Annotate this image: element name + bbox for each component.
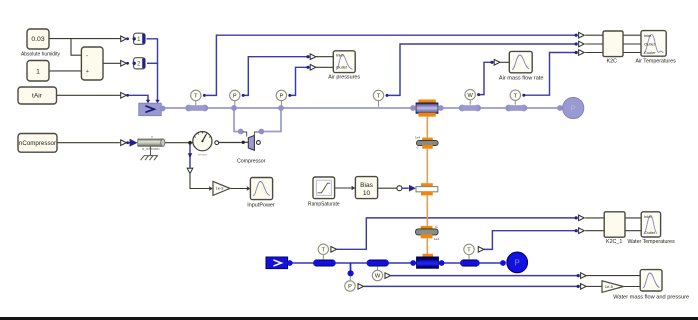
gain 1e-5 water <box>602 281 624 293</box>
mass flow sensor water <box>377 266 379 270</box>
svg-text:-: - <box>86 53 88 59</box>
constant 1 <box>27 61 49 82</box>
compressor inlet dot <box>238 129 244 135</box>
svg-text:T: T <box>514 93 518 99</box>
speed source input arrow <box>130 139 138 147</box>
water pump circle <box>507 252 528 273</box>
svg-text:Inlet: Inlet <box>336 53 344 58</box>
air cooler port dots <box>410 105 416 111</box>
wire constant 1 to sum plus input <box>49 70 81 72</box>
connector into K2C_1 input1 <box>575 216 578 219</box>
svg-text:RampSaturate: RampSaturate <box>308 201 340 207</box>
wire connector to water scope in1 <box>587 275 641 277</box>
wire constant 0.03 output <box>49 38 121 40</box>
connector into Air pressures in1 <box>306 55 309 58</box>
temperature sensor T1 (air inlet) <box>195 101 197 106</box>
air source boundary block <box>139 103 161 115</box>
thermal conductor G2 body <box>416 229 438 235</box>
svg-text:Air mass flow rate: Air mass flow rate <box>499 76 544 82</box>
air pipe segment 2 <box>459 105 466 112</box>
connector into water scope <box>577 274 580 277</box>
wire gain to InputPower scope <box>230 188 247 190</box>
sum block (1 - x) <box>81 47 103 80</box>
water pipe segment 3 <box>460 260 467 267</box>
arrowhead into gain <box>209 186 213 190</box>
thermal conductor G1 orange tab bottom <box>422 145 433 149</box>
thermal conductor G2 orange tab bottom <box>421 235 433 239</box>
water heater orange cap <box>423 254 434 257</box>
Bias 10 block <box>355 177 377 199</box>
gauge output ring connector <box>215 141 219 145</box>
water source boundary block <box>266 257 288 269</box>
wire gauge flange to compressor shaft <box>219 142 242 144</box>
wire block2 output joins <box>147 62 158 64</box>
wire T2 to K2C input2 <box>388 44 576 95</box>
air junction dot 1 <box>231 105 237 111</box>
svg-text:1e-5: 1e-5 <box>605 284 614 289</box>
compressor body <box>248 135 254 150</box>
water pressure branch dot <box>348 270 354 276</box>
arrowhead into air source port2 <box>155 100 159 104</box>
air junction dot 2 <box>278 105 284 111</box>
compressor outlet dot <box>259 129 265 135</box>
scope Water mass flow and pressure <box>640 270 662 291</box>
wire water P to gain <box>364 285 577 287</box>
svg-text:Water Temperatures: Water Temperatures <box>627 239 674 245</box>
air pipe segment 3 <box>505 105 512 112</box>
wire shaft connector into compressor <box>245 141 249 143</box>
svg-text:1e4: 1e4 <box>415 135 420 139</box>
routing block 1 <box>134 33 145 44</box>
air sink boundary circle <box>563 97 584 118</box>
wire K2C_1 to Water Temperatures <box>625 230 641 232</box>
wire P2 to Air pressures input2 <box>290 67 307 95</box>
air cooler heat exchanger orange cap top <box>418 100 435 104</box>
wire K2C to Air Temperatures <box>623 34 641 36</box>
wire P1 to Air pressures input1 <box>244 57 308 96</box>
wire tAir output <box>57 94 121 96</box>
wire connector to K2C_1 <box>585 217 604 219</box>
air pipe wire junction1 down to compressor inlet <box>234 108 238 132</box>
wire branch 0.03 to sum minus input <box>71 39 81 56</box>
wire arrow to Air mass flow rate <box>500 61 510 63</box>
connector into block2 <box>121 61 127 67</box>
svg-text:P: P <box>571 104 576 113</box>
temperature sensor T2 (air) <box>378 101 380 107</box>
svg-text:0.03: 0.03 <box>31 36 44 43</box>
svg-text:T: T <box>322 248 326 254</box>
wire sum output to connector 2 <box>103 62 121 64</box>
svg-text:Outlet: Outlet <box>644 41 656 46</box>
connector into K2C input1 <box>575 34 578 37</box>
pressure sensor P1 (air) <box>234 101 236 106</box>
thermal conductor G1 orange tab top <box>422 138 433 142</box>
water pipe segment 1 <box>313 260 320 267</box>
svg-text:10: 10 <box>363 190 371 197</box>
wire T3 to K2C input3 <box>524 53 575 96</box>
compressor flange_b ring <box>257 141 261 145</box>
svg-text:Outlet: Outlet <box>644 230 656 235</box>
svg-text:nCompressor: nCompressor <box>19 140 56 147</box>
connector into Air pressures in2 <box>306 66 309 69</box>
arrowhead into InputPower <box>247 186 251 190</box>
air pipe wire cooler to pipe2 <box>441 107 460 109</box>
wire K2C to Air Temperatures <box>623 52 641 54</box>
svg-text:+: + <box>86 69 89 75</box>
connector into block1 <box>121 36 127 42</box>
speed source shaft cylinder <box>138 139 163 146</box>
wire water gain to scope in2 <box>624 286 640 288</box>
svg-text:P: P <box>233 94 237 100</box>
air pipe segment 1 <box>185 105 192 112</box>
connector into water gain <box>577 285 580 288</box>
connector triangle on power wire (down) <box>187 168 193 173</box>
air pipe wire pipe1 to cooler <box>207 107 412 109</box>
water pipe wire pipe2 to heater <box>388 262 413 264</box>
wire K2C to Air Temperatures <box>623 43 641 45</box>
heat port block orange tab top <box>421 183 433 187</box>
compressor outlet stub <box>254 132 259 136</box>
wire connector to water gain <box>587 285 602 287</box>
open circle connector <box>397 186 402 191</box>
svg-text:P: P <box>515 258 520 267</box>
wire nCompressor output <box>57 142 120 144</box>
svg-text:W: W <box>375 274 381 280</box>
arrowhead on power wire <box>188 153 192 158</box>
svg-text:Compressor: Compressor <box>237 159 266 165</box>
speed source support <box>141 146 158 160</box>
air pipe wire compressor outlet up to junction2 <box>264 108 281 132</box>
wire water T outlet to K2C_1 input2 <box>484 231 575 250</box>
wire arrow to Air pressures in2 <box>316 66 334 68</box>
connector into K2C input2 <box>575 42 578 45</box>
svg-text:P: P <box>280 94 284 100</box>
water heater body <box>417 257 439 268</box>
pressure sensor P2 (air) <box>280 101 282 106</box>
compressor shaft connector dot <box>242 141 245 144</box>
connector on tAir wire <box>121 93 127 99</box>
svg-text:Air pressures: Air pressures <box>328 75 360 81</box>
wire T1 to K2C input1 <box>206 35 575 95</box>
wire tAir connector to air source top <box>128 95 148 100</box>
temperature sensor T3 (air cooler outlet) <box>514 100 516 104</box>
svg-text:T: T <box>194 94 198 100</box>
water source outlet dot <box>287 260 293 266</box>
temperature sensor water inlet <box>322 255 324 260</box>
air cooler heat exchanger orange cap bottom <box>418 113 435 117</box>
wire power connector to gain 1e-3 <box>190 174 209 189</box>
wire connector to K2C <box>585 43 603 45</box>
air pipe wire pipe2 to pipe3 <box>480 107 507 109</box>
svg-text:Outlet: Outlet <box>336 64 348 69</box>
svg-text:K2C_1: K2C_1 <box>606 239 622 245</box>
RampSaturate block <box>313 177 335 199</box>
svg-text:1: 1 <box>36 68 40 75</box>
arrowhead into Bias <box>352 186 356 190</box>
water pipe wire pipe1 to pipe2 <box>335 262 368 264</box>
connector into K2C_1 input2 <box>575 229 578 232</box>
svg-text:P: P <box>348 284 352 290</box>
wire water W to scope <box>391 275 578 277</box>
air source chevron <box>145 106 154 113</box>
scope InputPower <box>250 178 272 200</box>
svg-text:Air Temperatures: Air Temperatures <box>635 58 675 64</box>
temperature sensor water outlet <box>468 255 470 260</box>
svg-text:T: T <box>377 94 381 100</box>
svg-text:n: n <box>151 135 153 139</box>
wire power tap down from shaft junction <box>189 143 191 168</box>
connector into Air mass flow rate <box>490 61 493 64</box>
K2C conversion block <box>603 31 623 57</box>
air source outlet dot <box>160 106 166 112</box>
wire connector to K2C <box>585 34 603 36</box>
svg-text:W: W <box>468 93 474 99</box>
connector on nCompressor wire <box>121 140 127 146</box>
compressor inlet stub <box>243 132 247 137</box>
tAir expression block <box>18 87 57 104</box>
water pipe segment 2 <box>367 260 374 267</box>
scope Air pressures <box>333 51 355 73</box>
K2C_1 conversion block <box>604 212 625 237</box>
wire RampSaturate to Bias <box>335 187 352 189</box>
svg-text:InputPower: InputPower <box>247 202 275 208</box>
svg-text:Water mass flow and pressure: Water mass flow and pressure <box>613 294 689 300</box>
air sink port dot <box>557 105 563 111</box>
wire connector to K2C_1 <box>585 230 604 232</box>
wire Bias to open connector <box>378 187 397 189</box>
water pipe stub to pressure sensor <box>350 263 352 271</box>
constant 0.03 (Absolute humidity) <box>27 29 49 49</box>
water heater port dots <box>410 260 416 266</box>
wire arrow to Air pressures in1 <box>316 56 334 58</box>
wire W1 to Air mass flow rate scope <box>479 62 491 94</box>
svg-text:Absolute humidity: Absolute humidity <box>21 52 60 58</box>
wire block1 and block2 outputs to air source top <box>146 39 157 101</box>
thermal wire conductor1 to heat flow block <box>426 149 428 183</box>
water pipe wire pipe3 to pump <box>479 262 503 264</box>
thermal conductor G1 body <box>417 141 439 146</box>
arrowhead into prescribed heat flow <box>409 185 416 192</box>
air pipe wire source to pipe1 <box>164 107 187 109</box>
scope Air mass flow rate <box>509 51 532 72</box>
water pipe wire source to pipe1 <box>291 262 314 264</box>
wire water T inlet to K2C_1 input1 <box>337 218 576 249</box>
gain 1e-3 <box>213 181 230 195</box>
svg-text:sensor: sensor <box>198 153 207 157</box>
svg-text:Inlet: Inlet <box>644 214 652 219</box>
nCompressor expression block <box>18 134 57 153</box>
wire connector to prescribed heat flow <box>402 187 409 189</box>
svg-text:w_ref exact=: w_ref exact= <box>142 147 160 151</box>
air cooler heat exchanger body <box>416 103 438 113</box>
air pipe wire pipe3 to sink <box>526 107 558 109</box>
mass flow sensor W1 (air) <box>469 100 471 105</box>
water source chevron <box>273 260 281 266</box>
svg-text:tAir: tAir <box>32 93 43 100</box>
arrowhead into air source port1 <box>146 100 150 104</box>
thermal conductor G2 orange tab top <box>421 226 433 230</box>
water pipe wire heater to pipe3 <box>442 262 462 264</box>
wire nCompressor connector to speed source <box>128 142 130 144</box>
heat port block orange tab bottom <box>421 191 433 195</box>
thermal wire conductor2 to water heater <box>426 238 428 254</box>
shaft junction dot <box>188 141 192 145</box>
wire connector to K2C <box>585 52 603 54</box>
pressure sensor water <box>349 276 351 280</box>
wire speed source flange to gauge <box>165 142 193 144</box>
thermal wire heat flow block to conductor2 <box>426 196 428 226</box>
routing block 2 <box>134 58 145 69</box>
wire K2C_1 to Water Temperatures <box>625 217 641 219</box>
connector into K2C input3 <box>575 51 578 54</box>
svg-text:T: T <box>467 248 471 254</box>
scope Water Temperatures <box>641 212 660 237</box>
svg-text:K2C: K2C <box>607 58 617 64</box>
thermal wire cooler to conductor1 <box>426 117 428 138</box>
svg-text:Inlet: Inlet <box>644 33 652 38</box>
heat port block body <box>416 187 438 192</box>
svg-text:1e-3: 1e-3 <box>216 187 224 191</box>
svg-text:1e4: 1e4 <box>434 237 439 241</box>
water pump port dot <box>500 260 506 266</box>
scope Air Temperatures <box>641 31 666 57</box>
svg-text:Bias: Bias <box>360 182 374 189</box>
gauge speed indicator <box>193 132 212 151</box>
svg-text:Cooler: Cooler <box>644 50 656 55</box>
